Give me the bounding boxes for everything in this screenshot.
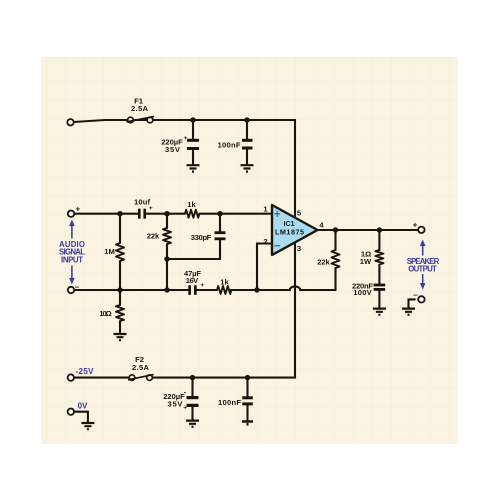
terminal -25V <box>68 374 74 380</box>
svg-text:2.5A: 2.5A <box>131 104 149 113</box>
wire: 22k R7 feedback bottom lead <box>334 268 336 290</box>
terminal audio - input <box>68 287 74 293</box>
terminal 0V <box>68 409 74 415</box>
wire: 10Ohm R5 top lead <box>119 290 121 305</box>
svg-text:–: – <box>75 282 80 291</box>
svg-text:+: + <box>200 282 204 289</box>
junction 22k bottom node <box>164 256 169 261</box>
resistor R3 1k <box>185 210 199 218</box>
wire: feedback node to 22k R7 bottom with hop over pin3 line <box>257 286 336 290</box>
ground under C1 <box>187 165 200 171</box>
wire: + input to 10uf <box>75 213 139 215</box>
capacitor C6 100nF plates (bottom) <box>242 396 253 399</box>
junction -25V rail at C6 <box>245 375 250 380</box>
svg-text:+: + <box>184 135 188 142</box>
junction output at zobel <box>377 227 382 232</box>
svg-text:100nF: 100nF <box>218 398 241 407</box>
fuse F1 2.5A <box>127 117 155 123</box>
wire: C2 to ground <box>246 150 248 165</box>
svg-text:330pF: 330pF <box>191 233 212 242</box>
svg-text:35V: 35V <box>165 145 181 154</box>
svg-text:1W: 1W <box>360 257 372 266</box>
arrow input up <box>71 224 73 239</box>
wire: 330pF C3 bottom lead <box>219 240 221 259</box>
terminal speaker + <box>418 227 424 233</box>
svg-text:2.5A: 2.5A <box>132 363 150 372</box>
wire: node between 22k and 330pF bottoms <box>167 258 220 260</box>
schematic background panel <box>41 57 458 444</box>
svg-text:22k: 22k <box>317 258 330 267</box>
svg-text:−: − <box>274 241 281 253</box>
wire: feedback node up to op-amp pin2 <box>257 244 272 291</box>
wire: 0V terminal to ground <box>74 412 88 422</box>
wire: 22k R4 bottom lead <box>166 244 168 259</box>
junction output at 22k feedback <box>333 227 338 232</box>
wire: 1M R2 bottom lead <box>119 261 121 290</box>
svg-text:3: 3 <box>297 244 301 253</box>
wire: +25V rail from input terminal to pin5 corner <box>74 120 296 217</box>
wire: zobel 1R resistor top lead <box>378 230 380 250</box>
capacitor C2 100nF plates <box>242 139 253 142</box>
svg-text:+: + <box>274 209 281 221</box>
wire: rail tap to 100nF C2 <box>246 120 248 139</box>
svg-text:0V: 0V <box>78 402 88 411</box>
arrow output up <box>422 244 424 256</box>
junction input wire at 22k <box>164 211 169 216</box>
ground under R5 10R <box>114 334 127 340</box>
wire: 10uf to 1k R3 <box>146 213 185 215</box>
resistor R4 22k <box>163 228 171 244</box>
junction top rail at C2 <box>244 117 249 122</box>
resistor R7 22k feedback <box>332 250 340 268</box>
svg-text:OUTPUT: OUTPUT <box>408 265 437 274</box>
ground under C6 <box>242 422 253 425</box>
junction top rail at C1 <box>190 117 195 122</box>
arrow input down <box>71 266 73 281</box>
wire: 1k R6 to feedback node <box>231 289 257 291</box>
junction feedback node at pin2 <box>254 287 259 292</box>
svg-text:2: 2 <box>263 237 267 246</box>
junction bottom wire at 1M <box>117 287 122 292</box>
wire: rail tap to 220uF C1 <box>192 120 194 139</box>
ground at speaker - terminal <box>402 309 415 315</box>
wire: 10Ohm R5 to ground <box>119 321 121 333</box>
wire: 330pF C3 top lead <box>219 214 221 232</box>
capacitor C1 220uF 35V plates <box>187 139 199 142</box>
arrow output down <box>422 274 424 285</box>
resistor R6 1k <box>217 286 231 294</box>
junction input wire at 330pF <box>217 211 222 216</box>
wire: zobel resistor to 220nF C7 <box>378 265 380 284</box>
svg-text:1k: 1k <box>187 200 196 209</box>
svg-text:-25V: -25V <box>76 367 95 376</box>
wire: 1M R2 top lead <box>119 214 121 243</box>
wire: C1 to ground <box>192 150 194 164</box>
svg-text:INPUT: INPUT <box>61 255 83 264</box>
capacitor C4 47uF 16V plates <box>188 285 191 295</box>
wire: - input to 47uF C4 <box>75 289 189 291</box>
svg-text:+: + <box>75 204 80 213</box>
svg-text:100V: 100V <box>353 288 372 297</box>
wire: -25V rail from F2 to pin3 corner <box>153 243 295 378</box>
svg-text:–: – <box>413 291 418 300</box>
svg-text:1k: 1k <box>220 278 229 287</box>
svg-text:LM1875: LM1875 <box>275 227 304 236</box>
svg-text:16V: 16V <box>186 276 199 285</box>
ground under C2 <box>241 165 254 171</box>
svg-text:10Ω: 10Ω <box>99 309 112 318</box>
terminal audio + input <box>68 211 74 217</box>
capacitor C3 330pF plates <box>215 231 226 234</box>
wire: op-amp output to speaker + terminal <box>318 229 419 231</box>
wire: 22k R4 top lead <box>166 214 168 228</box>
junction bottom wire at 22k leg <box>164 287 169 292</box>
wire: rail tap to 100nF C6 <box>246 378 248 397</box>
wire: C6 to ground bar <box>246 405 248 420</box>
resistor R8 1R 1W zobel <box>375 250 383 264</box>
terminal speaker - <box>418 296 424 302</box>
resistor R2 1M <box>116 243 124 261</box>
svg-text:+: + <box>413 221 418 230</box>
ground at 0V terminal <box>81 423 94 429</box>
ground under C5 <box>186 421 199 427</box>
wire: 220nF C7 to ground <box>378 291 380 308</box>
capacitor C5 220uF 35V plates (bottom) <box>187 396 199 399</box>
capacitor C0 10uf plates <box>138 209 141 219</box>
wire: rail tap to 220uF C5 <box>191 378 193 396</box>
wire: speaker - terminal to ground <box>409 299 415 307</box>
wire: C5 to ground <box>191 407 193 420</box>
wire: 22k bottom node down to - input wire <box>166 259 168 290</box>
wire: -25V rail left of fuse F2 <box>74 377 129 379</box>
wire: 1k R3 to op-amp pin1 <box>199 213 272 215</box>
wire: 47uF to 1k R6 <box>197 289 217 291</box>
svg-text:35V: 35V <box>168 400 184 409</box>
capacitor C7 220nF 100V plates <box>374 284 386 287</box>
junction input wire at 1M <box>117 211 122 216</box>
junction -25V rail at C5 <box>190 375 195 380</box>
terminal +25V input <box>67 119 73 125</box>
fuse F2 2.5A <box>128 375 154 381</box>
svg-text:100nF: 100nF <box>218 140 241 149</box>
resistor R5 10R <box>116 305 124 321</box>
svg-text:+: + <box>149 205 153 212</box>
svg-text:22k: 22k <box>147 232 160 241</box>
op-amp U1 LM1875 triangle <box>272 205 318 255</box>
wire: 22k R7 feedback top lead <box>334 230 336 250</box>
svg-text:+: + <box>183 405 187 412</box>
svg-text:1M: 1M <box>104 247 115 256</box>
ground under zobel C7 <box>373 309 386 315</box>
